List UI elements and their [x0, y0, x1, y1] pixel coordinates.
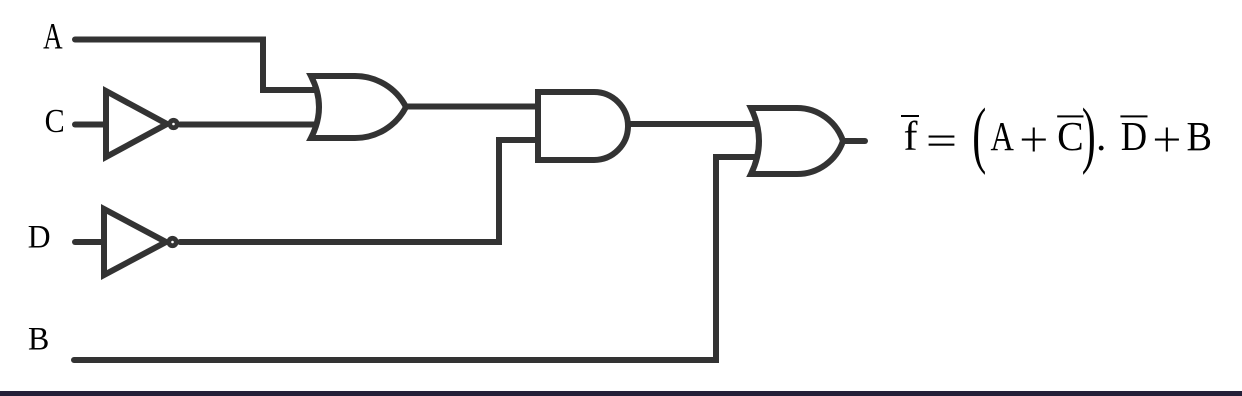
wire NOT2 output to AND bottom input: [180, 140, 540, 242]
svg-text:B: B: [1186, 113, 1211, 160]
formula: overline C: [1057, 115, 1083, 117]
svg-text:(: (: [972, 94, 986, 176]
svg-text:D: D: [1121, 114, 1147, 160]
svg-text:C: C: [1057, 113, 1084, 159]
formula: overline D: [1120, 115, 1147, 117]
wire AND output to OR2 top input: [628, 121, 762, 127]
wire D to NOT2 input: [75, 239, 106, 245]
svg-text:D: D: [28, 218, 51, 255]
OR gate U3 (final): [751, 108, 843, 174]
formula: plus 2: [1155, 139, 1179, 141]
svg-text:A: A: [991, 114, 1014, 160]
svg-text:B: B: [28, 321, 49, 358]
wire A to OR1 top input: [75, 40, 320, 91]
wire OR1 output to AND input: [406, 104, 540, 110]
svg-text:): ): [1082, 94, 1096, 176]
svg-text:f: f: [904, 113, 918, 159]
AND gate U2: [538, 92, 628, 160]
OR gate U1 (A + notC): [311, 76, 406, 138]
wire OR2 output stub: [843, 138, 865, 144]
formula: equals sign: [929, 136, 955, 138]
wire B to OR2 bottom input: [74, 157, 760, 360]
bottom bar: [0, 391, 1242, 396]
wire NOT1 output to OR1 bottom input: [180, 122, 320, 128]
svg-text:A: A: [43, 16, 63, 57]
NOT gate (inverter) for D: [104, 209, 176, 275]
wire C to NOT1 input: [75, 122, 108, 128]
formula: overline f: [901, 115, 919, 117]
formula: plus 1: [1022, 139, 1046, 141]
NOT gate (inverter) for C: [106, 91, 177, 157]
svg-text:C: C: [45, 101, 65, 139]
svg-text:.: .: [1096, 113, 1106, 159]
